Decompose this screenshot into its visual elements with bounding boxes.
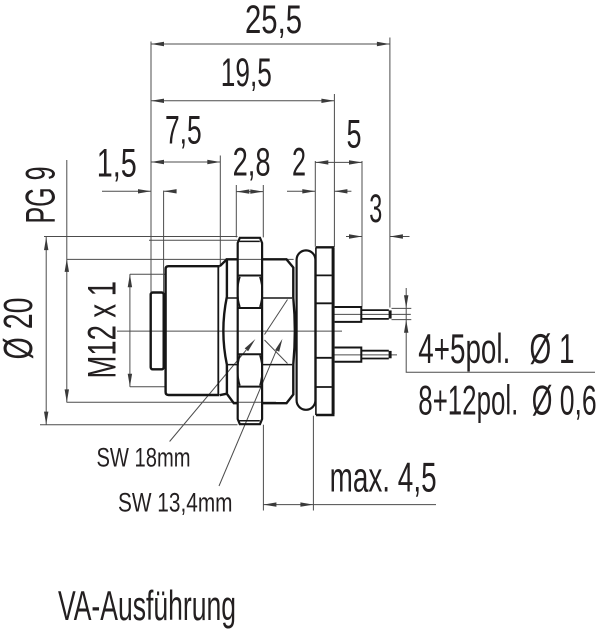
arrow PG9 top — [65, 259, 69, 272]
svg-text:VA-Ausführung: VA-Ausführung — [58, 582, 236, 629]
arrow O1 up — [404, 320, 408, 333]
svg-text:Ø 1: Ø 1 — [530, 325, 575, 372]
extension line y258.8 — [67, 258, 294, 260]
svg-text:4+5pol.: 4+5pol. — [418, 325, 510, 372]
hex SW18 chamfer line bottom — [240, 420, 260, 422]
hex SW18 barrel arcs lower segment — [238, 355, 263, 385]
BODY — [151, 238, 390, 424]
arrow 3 left outside — [349, 234, 362, 238]
dimension M12 line vertical — [129, 274, 131, 387]
extension line y424.8 — [40, 424, 238, 426]
arrow M12 top — [128, 274, 132, 287]
washer left edge — [315, 247, 317, 415]
extension lines M12 y274 y387.6 — [130, 274, 165, 387]
svg-text:SW 13,4mm: SW 13,4mm — [118, 488, 233, 518]
hex SW18 facet line y386.6 — [238, 386, 262, 388]
flange plate edge-on band — [332, 248, 335, 414]
extension line x151 — [150, 42, 152, 293]
THIN-LINES — [40, 38, 595, 511]
svg-text:Ø 0,6: Ø 0,6 — [532, 377, 597, 424]
dimension PG9 line vertical — [66, 160, 68, 403]
svg-text:3: 3 — [369, 187, 382, 231]
dimension 7,5 line — [151, 161, 220, 163]
dimension 3 line — [346, 236, 410, 238]
main cylinder outline — [166, 266, 220, 395]
extension line x334.4 — [333, 94, 335, 247]
arrow 7,5 right — [207, 160, 220, 164]
dimension O1 pin line vertical and table leader — [406, 288, 595, 372]
svg-text:25,5: 25,5 — [245, 0, 302, 42]
lower pin shoulder — [335, 348, 362, 362]
extension line x219.9 — [219, 156, 221, 267]
svg-text:PG 9: PG 9 — [17, 167, 64, 224]
extension line x236.5 — [235, 185, 237, 237]
hex13.4 facet diagonal D1 — [265, 300, 288, 335]
hex SW13.4 facet lines — [227, 298, 292, 365]
svg-text:5: 5 — [347, 113, 362, 157]
extension line x315.7 top and bottom — [313, 161, 315, 511]
hex SW13.4 right portion — [262, 259, 295, 403]
arrow O1 down — [404, 295, 408, 308]
O-ring seal — [297, 250, 316, 409]
chamfer diagonal top cylinder-to-hex — [220, 259, 227, 266]
arrow 2 left outside — [302, 189, 315, 193]
svg-text:SW 18mm: SW 18mm — [97, 442, 191, 472]
upper pin shoulder — [335, 307, 362, 322]
hex SW18 nut outline — [238, 238, 262, 424]
dimension 5 line — [315, 161, 362, 163]
extension line x165.6 — [163, 191, 165, 292]
ARROWS — [44, 42, 408, 507]
arrow O20 top — [44, 237, 48, 250]
svg-text:max. 4,5: max. 4,5 — [330, 454, 437, 501]
dimension 2 line — [287, 190, 351, 192]
svg-text:1,5: 1,5 — [97, 142, 137, 186]
svg-text:19,5: 19,5 — [221, 51, 272, 95]
arrow 19,5 right — [321, 99, 334, 103]
centerline main axis — [117, 330, 342, 332]
lower pin tip cap — [389, 351, 392, 358]
arrow M12 bottom — [128, 374, 132, 387]
hex SW18 barrel arcs upper segment — [238, 277, 263, 307]
washer top edge — [316, 246, 335, 248]
lower pin tip — [361, 351, 389, 359]
upper pin tip — [361, 310, 389, 319]
extension line x361.6 — [361, 161, 363, 307]
extension line y236.8 — [44, 236, 238, 238]
arrow 19,5 left — [151, 99, 164, 103]
arrow 7,5 left — [151, 160, 164, 164]
leader SW 13,4mm — [219, 349, 277, 486]
arrow 25,5 left — [151, 42, 164, 46]
arrow 1,5 left outside — [138, 189, 151, 193]
hex SW18 facet line y354.2 — [238, 353, 262, 355]
svg-text:Ø 20: Ø 20 — [0, 298, 41, 360]
dimension 25,5 line — [151, 43, 390, 45]
arrow 5 right — [349, 160, 362, 164]
arrow 5 left — [315, 160, 328, 164]
centerline upper pin — [335, 313, 411, 315]
arrow O20 bottom — [44, 412, 48, 425]
arrow 25,5 right — [377, 42, 390, 46]
svg-text:2: 2 — [292, 141, 306, 185]
washer division lines — [316, 275, 332, 387]
svg-text:2,8: 2,8 — [233, 140, 271, 184]
upper pin tip cap — [389, 310, 392, 318]
hex SW18 facet line y275.5 — [238, 275, 262, 277]
washer bottom edge — [316, 414, 335, 416]
arrow 1,5 right outside — [164, 189, 177, 193]
svg-text:8+12pol.: 8+12pol. — [418, 377, 518, 424]
leader SW 18mm — [170, 350, 247, 441]
extension line x262.4 top and bottom — [262, 185, 264, 511]
centerline lower pin — [335, 354, 398, 356]
arrow leader SW13,4 — [275, 339, 282, 352]
rear cylinder — [151, 293, 164, 370]
arrow PG9 bottom — [65, 389, 69, 402]
chamfer diagonal bottom cylinder-to-hex — [220, 394, 227, 396]
dimension 2,8 line — [236, 191, 263, 193]
main cylinder right edge — [217, 266, 219, 395]
dimension max 4,5 line — [263, 504, 436, 506]
arrow 2 right outside — [334, 189, 347, 193]
hex SW18 chamfer line top — [240, 240, 260, 242]
arrow max4,5 right — [300, 502, 313, 506]
arrow 2,8 left — [236, 189, 249, 193]
dimension 1,5 line — [102, 190, 174, 192]
arrow 2,8 right — [250, 189, 263, 193]
hex SW18 facet line y308 — [238, 307, 262, 309]
svg-text:7,5: 7,5 — [165, 109, 202, 153]
arrow max4,5 left — [263, 502, 276, 506]
dimension O20 line vertical — [45, 237, 47, 425]
arrow 3 right outside — [390, 234, 403, 238]
arrow leader SW18 — [245, 339, 256, 351]
svg-text:M12 x 1: M12 x 1 — [81, 281, 125, 379]
extension line y240.3 — [149, 239, 238, 241]
extension line x389.9 — [389, 38, 391, 308]
hex SW13.4 left portion — [223, 259, 237, 403]
dimension 19,5 line — [151, 100, 334, 102]
extension line y402.5 — [67, 401, 276, 403]
hex13.4 facet diagonal D2 — [265, 340, 288, 364]
extension lines pin O1 — [392, 308, 412, 319]
